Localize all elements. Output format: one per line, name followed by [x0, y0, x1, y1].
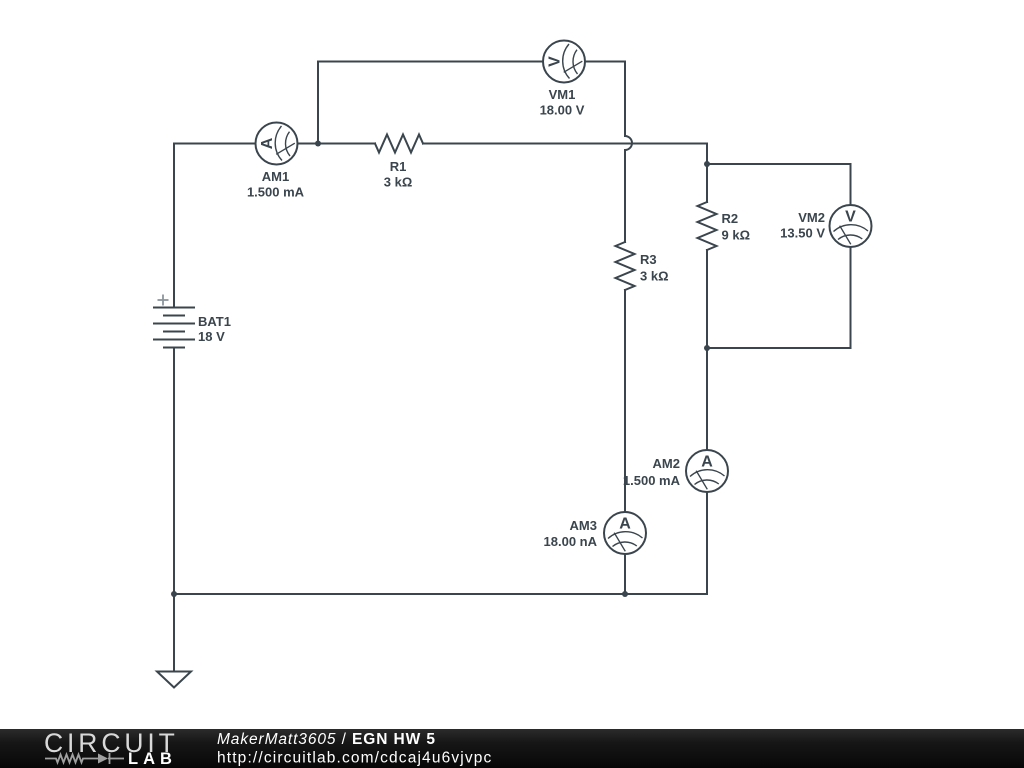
svg-text:AM1: AM1: [262, 169, 289, 184]
wire corner to AM1 left: [174, 143, 256, 145]
wire AM2 to bottom corner: [706, 492, 708, 594]
wire R1 to right corner: [423, 143, 707, 145]
svg-text:13.50 V: 13.50 V: [780, 226, 825, 241]
wire R2 to node C: [706, 250, 708, 348]
svg-text:http://circuitlab.com/cdcaj4u6: http://circuitlab.com/cdcaj4u6vjvpc: [217, 750, 492, 767]
svg-text:BAT1: BAT1: [198, 314, 231, 329]
svg-text:R2: R2: [722, 211, 739, 226]
svg-text:9 kΩ: 9 kΩ: [722, 228, 751, 243]
svg-text:LAB: LAB: [128, 750, 177, 768]
node D junction: [171, 591, 177, 597]
wire AM3 to bottom: [624, 554, 626, 594]
ammeter AM2: [686, 450, 728, 492]
svg-text:3 kΩ: 3 kΩ: [640, 269, 669, 284]
svg-text:A: A: [619, 516, 631, 533]
wire AM1 right to junction: [298, 143, 319, 145]
svg-text:1.500 mA: 1.500 mA: [623, 473, 681, 488]
node E junction: [622, 591, 628, 597]
svg-text:18 V: 18 V: [198, 329, 225, 344]
wire hop over y143: [625, 136, 632, 150]
svg-text:VM1: VM1: [549, 87, 576, 102]
wire hop to R3: [624, 150, 626, 242]
node B junction: [704, 161, 710, 167]
svg-text:AM2: AM2: [653, 456, 680, 471]
svg-text:A: A: [701, 454, 713, 471]
svg-text:A: A: [259, 137, 276, 149]
battery BAT1: [153, 308, 195, 348]
svg-text:V: V: [845, 209, 856, 226]
svg-text:MakerMatt3605 / EGN HW 5: MakerMatt3605 / EGN HW 5: [217, 731, 436, 748]
svg-text:3 kΩ: 3 kΩ: [384, 175, 413, 190]
ammeter AM1: [256, 123, 298, 165]
wire battery top to corner: [173, 144, 175, 308]
wire R3 to AM3: [624, 290, 626, 512]
svg-text:AM3: AM3: [570, 518, 597, 533]
node A junction: [315, 141, 321, 147]
voltmeter VM2: [830, 205, 872, 247]
resistor R2: [698, 202, 717, 250]
svg-text:VM2: VM2: [798, 210, 825, 225]
wire battery bottom down: [173, 348, 175, 595]
resistor R3: [616, 242, 635, 290]
svg-text:1.500 mA: 1.500 mA: [247, 185, 305, 200]
svg-text:18.00 nA: 18.00 nA: [544, 534, 598, 549]
wire VM2 loop bottom: [707, 247, 851, 349]
svg-text:18.00 V: 18.00 V: [540, 103, 585, 118]
wire junction to R1: [318, 143, 375, 145]
wire VM1 to corner: [585, 61, 625, 63]
wire VM2 loop top: [707, 164, 851, 206]
voltmeter VM1: [543, 41, 585, 83]
ground: [157, 672, 191, 688]
wire corner down to hop: [624, 62, 626, 137]
battery plus sign: [158, 295, 169, 306]
ammeter AM3: [604, 512, 646, 554]
wire bottom rail: [174, 593, 707, 595]
svg-text:R1: R1: [390, 159, 407, 174]
resistor R1: [375, 135, 423, 153]
wire ground drop: [173, 594, 175, 672]
svg-text:R3: R3: [640, 252, 657, 267]
node C junction: [704, 345, 710, 351]
wire top to VM1: [318, 61, 543, 63]
wire corner down to node B: [706, 144, 708, 165]
wire node C to AM2: [706, 348, 708, 450]
svg-text:V: V: [547, 56, 564, 67]
wire junction up: [317, 62, 319, 144]
wire node B to R2: [706, 164, 708, 202]
logo resistor-diode: [45, 753, 124, 764]
